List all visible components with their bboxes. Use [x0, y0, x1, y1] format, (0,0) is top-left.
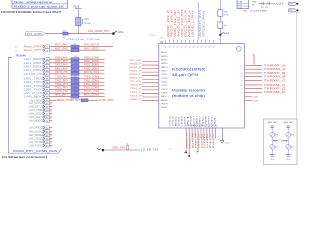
svg-text:TXD3_PHY: TXD3_PHY: [55, 88, 69, 90]
svg-text:RXD2_CONN: RXD2_CONN: [84, 65, 99, 67]
svg-text:Reset_PHY2: Reset_PHY2: [24, 49, 44, 52]
svg-text:RXD3_PHY: RXD3_PHY: [55, 68, 68, 70]
svg-text:2: 2: [16, 47, 18, 49]
svg-text:RXD0_P: RXD0_P: [130, 63, 143, 65]
svg-text:LAN_RXD3: LAN_RXD3: [24, 69, 44, 72]
svg-text:7: 7: [241, 89, 242, 91]
svg-text:LED2: LED2: [182, 114, 184, 126]
svg-text:VDD_1V2_PH: VDD_1V2_PH: [182, 9, 184, 37]
svg-text:2: 2: [241, 69, 242, 71]
svg-text:RXC: RXC: [161, 52, 168, 54]
svg-text:LAN_CLKSEL: LAN_CLKSEL: [29, 137, 44, 140]
svg-text:1 dB: 1 dB: [238, 2, 243, 4]
svg-text:LAN_CLK125: LAN_CLK125: [29, 102, 44, 105]
svg-text:33: 33: [74, 47, 76, 49]
LED mid label: [273, 140, 288, 142]
svg-text:GND: GND: [270, 159, 275, 161]
svg-text:LAN_RXD1: LAN_RXD1: [24, 62, 44, 65]
svg-text:4: 4: [241, 77, 242, 79]
wire FB1 to rail: [77, 26, 79, 34]
svg-text:22: 22: [212, 125, 214, 127]
svg-text:RGMII_PHY_CONN_BUS: RGMII_PHY_CONN_BUS: [13, 150, 57, 153]
wire 1V2 rail: [45, 33, 63, 35]
svg-text:46: 46: [201, 47, 203, 49]
svg-text:MDIO: MDIO: [161, 100, 168, 102]
svg-text:48: 48: [209, 47, 211, 49]
svg-text:RXD0_PHY: RXD0_PHY: [55, 57, 68, 59]
wire P1V2 down: [77, 9, 79, 17]
resistor R33: [126, 145, 129, 149]
svg-text:RXD3_P: RXD3_P: [130, 74, 143, 76]
svg-text:LAN_MODE2: LAN_MODE2: [29, 130, 44, 133]
svg-text:17: 17: [197, 125, 199, 127]
svg-text:RST_PHY: RST_PHY: [55, 45, 69, 47]
svg-text:TXRXM_A: TXRXM_A: [264, 67, 286, 71]
svg-text:RXD1_CONN: RXD1_CONN: [84, 61, 99, 63]
LED box outline: [264, 119, 298, 165]
svg-text:KSZ9031RNX: KSZ9031RNX: [172, 67, 206, 72]
svg-text:47: 47: [205, 47, 207, 49]
svg-text:(bottom of chip): (bottom of chip): [172, 94, 206, 98]
svg-text:LAN_MODE1: LAN_MODE1: [29, 127, 44, 130]
svg-text:5: 5: [241, 80, 242, 82]
resistor R14: [63, 32, 68, 35]
svg-text:C15: C15: [85, 19, 90, 21]
svg-text:TXEN: TXEN: [161, 92, 168, 94]
svg-text:LAN_RX_CTL: LAN_RX_CTL: [24, 73, 44, 76]
svg-text:TXD2_PHY: TXD2_PHY: [55, 84, 69, 86]
svg-text:TXD1_P: TXD1_P: [130, 88, 143, 90]
svg-text:TXD3_P: TXD3_P: [130, 95, 143, 97]
offpage port XI: [289, 9, 297, 12]
svg-text:LAN_MODE0: LAN_MODE0: [29, 120, 44, 123]
svg-text:TXD3_CONN: TXD3_CONN: [84, 88, 99, 90]
svg-text:33: 33: [74, 71, 76, 73]
svg-text:470: 470: [275, 135, 278, 137]
svg-text:CLK125: CLK125: [198, 132, 200, 148]
svg-text:20: 20: [206, 125, 208, 127]
junction dot J1: [112, 32, 115, 35]
svg-text:AVDDH: AVDDH: [253, 54, 256, 64]
svg-text:RXDV: RXDV: [161, 71, 168, 73]
svg-text:RXD1_P: RXD1_P: [130, 67, 143, 69]
svg-text:GND: GND: [286, 159, 291, 161]
U1 top pin stubs: [165, 40, 167, 44]
svg-text:19: 19: [203, 125, 205, 127]
svg-text:RXDV_P: RXDV_P: [130, 78, 143, 80]
svg-text:LAN_MODE3: LAN_MODE3: [29, 134, 44, 137]
svg-text:C14 0.1uF: C14 0.1uF: [67, 39, 85, 41]
wire chain low: [219, 28, 221, 43]
svg-text:33: 33: [74, 43, 76, 45]
svg-text:VSS: VSS: [254, 97, 259, 99]
svg-text:AVDDH_3V3: AVDDH_3V3: [199, 9, 202, 37]
svg-text:12.1K 1%: 12.1K 1%: [141, 149, 159, 151]
svg-text:AVDD_1V2_L: AVDD_1V2_L: [188, 9, 191, 37]
port 1V2_AVDD: [26, 32, 46, 36]
svg-text:RXCTL_PHY: RXCTL_PHY: [55, 72, 68, 74]
svg-text:33: 33: [74, 83, 76, 85]
wire chain mid: [219, 16, 221, 22]
ground arrow: [220, 141, 224, 144]
svg-text:LAN_TXD2: LAN_TXD2: [24, 85, 44, 88]
svg-text:TXEN_P: TXEN_P: [130, 99, 143, 101]
wire CLK to top: [197, 2, 199, 40]
svg-text:PME_N: PME_N: [195, 133, 197, 149]
svg-text:TXRXP_D: TXRXP_D: [264, 87, 286, 91]
svg-text:XO: XO: [290, 4, 293, 6]
svg-text:4.7: 4.7: [63, 38, 67, 40]
wire led low 1: [271, 149, 273, 155]
U1 right MDI pin wires: [245, 64, 263, 66]
svg-text:TXRXM_B: TXRXM_B: [264, 75, 286, 79]
svg-text:RXD0-3 pull-up/-down 1K: RXD0-3 pull-up/-down 1K: [14, 5, 65, 8]
svg-text:15: 15: [191, 125, 193, 127]
svg-text:TXRXP_C: TXRXP_C: [264, 78, 286, 82]
svg-text:LAN_LED2: LAN_LED2: [29, 116, 44, 119]
svg-text:TXRXM_C: TXRXM_C: [264, 83, 286, 87]
svg-text:RXD0_CONN: RXD0_CONN: [84, 57, 99, 59]
svg-text:33: 33: [74, 93, 76, 95]
svg-text:TXD0_P: TXD0_P: [130, 85, 143, 87]
U1 bottom pin stubs: [185, 128, 187, 153]
resistor R30: [218, 10, 223, 16]
wire rail to junction: [68, 33, 113, 35]
svg-text:1V2_AVDD: 1V2_AVDD: [27, 32, 43, 36]
svg-text:TXCTL_CON: TXCTL_CON: [84, 91, 99, 93]
svg-text:0.1uF: 0.1uF: [85, 23, 91, 25]
svg-text:VDD_1V2_AP: VDD_1V2_AP: [174, 9, 177, 37]
svg-text:33: 33: [74, 60, 76, 62]
svg-text:ISET_PHY: ISET_PHY: [113, 148, 127, 150]
svg-text:33: 33: [74, 86, 76, 88]
svg-text:A3V3: A3V3: [224, 32, 230, 35]
svg-text:33: 33: [74, 75, 76, 77]
svg-text:14: 14: [188, 125, 190, 127]
svg-text:MDC_PHY: MDC_PHY: [55, 95, 69, 97]
svg-text:grn: grn: [291, 147, 294, 149]
svg-text:LED2_N: LED2_N: [190, 133, 192, 149]
resistor R41: [270, 133, 275, 138]
svg-text:2: 2: [16, 50, 18, 52]
svg-text:X1_P: X1_P: [150, 35, 156, 37]
svg-text:VSS: VSS: [173, 114, 175, 126]
svg-text:GND: GND: [201, 132, 203, 148]
svg-text:XTAL: XTAL: [243, 9, 249, 12]
ground 2: [286, 154, 291, 156]
wire led mid 1: [271, 137, 273, 144]
svg-text:2.2K 5%: 2.2K 5%: [99, 100, 113, 102]
svg-text:LAN_MDC: LAN_MDC: [24, 96, 44, 99]
junction dots bottom: [188, 155, 190, 157]
svg-text:RXD3_CONN: RXD3_CONN: [84, 68, 99, 70]
svg-text:39: 39: [173, 47, 175, 49]
svg-text:GND: GND: [204, 132, 206, 148]
svg-text:GND: GND: [207, 132, 209, 148]
svg-text:PHY_RST_R: PHY_RST_R: [84, 45, 99, 47]
svg-text:LAN_RSVD: LAN_RSVD: [29, 144, 44, 147]
svg-text:49: 49: [213, 47, 215, 49]
resistor R42: [286, 133, 291, 138]
svg-text:LAN_INT_N: LAN_INT_N: [29, 105, 44, 108]
wire led low 2: [287, 149, 289, 155]
svg-text:LED1: LED1: [161, 107, 168, 109]
svg-text:33: 33: [74, 90, 76, 92]
svg-text:VSS: VSS: [254, 100, 259, 102]
svg-text:3: 3: [241, 73, 242, 75]
svg-text:33: 33: [74, 56, 76, 58]
thermal pad circle: [236, 46, 241, 51]
svg-text:33: 33: [74, 67, 76, 69]
svg-text:DVDD_L_PHY: DVDD_L_PHY: [192, 9, 194, 37]
svg-text:CL=18pF 25MHz: CL=18pF 25MHz: [250, 10, 267, 12]
ground 1: [270, 154, 275, 156]
power arrow 2: [287, 125, 290, 127]
svg-text:37: 37: [165, 47, 167, 49]
svg-text:U2: U2: [160, 40, 164, 44]
wire right edge down: [296, 11, 298, 119]
ground arrow 2: [97, 148, 101, 150]
svg-text:1K: 1K: [224, 25, 227, 27]
U1 right lower pins: [245, 96, 253, 98]
svg-text:RXD3: RXD3: [161, 67, 168, 69]
svg-text:LAN_TXD3: LAN_TXD3: [24, 88, 44, 91]
svg-text:VSS: VSS: [170, 114, 172, 126]
svg-text:1V2_AVDD_PHY: 1V2_AVDD_PHY: [88, 30, 110, 33]
svg-text:42: 42: [185, 47, 187, 49]
svg-text:AVDD_1V2_P: AVDD_1V2_P: [170, 9, 173, 37]
svg-text:2: 2: [217, 126, 219, 127]
svg-text:grn: grn: [275, 147, 278, 149]
svg-text:1: 1: [241, 65, 242, 67]
svg-text:TXD3: TXD3: [161, 89, 168, 91]
resistor R31: [218, 22, 223, 28]
svg-text:C11 22p: C11 22p: [261, 7, 268, 9]
svg-text:TXC: TXC: [161, 74, 168, 76]
note box N1: [12, 0, 68, 8]
svg-text:TXD2_CONN: TXD2_CONN: [84, 84, 99, 86]
svg-text:LAN_PME: LAN_PME: [29, 109, 44, 112]
svg-text:RGMII: RGMII: [16, 54, 26, 58]
wire chain top: [219, 0, 221, 10]
svg-text:Hz: Hz: [252, 5, 254, 7]
svg-text:45: 45: [197, 47, 199, 49]
svg-text:Note: strap options: Note: strap options: [14, 1, 53, 4]
svg-text:TXRXP_A: TXRXP_A: [264, 63, 286, 67]
svg-text:RXD2_PHY: RXD2_PHY: [55, 65, 68, 67]
svg-text:Reset_PHY1: Reset_PHY1: [24, 46, 44, 49]
svg-text:Paddle Ground: Paddle Ground: [172, 89, 205, 93]
svg-text:48-pin QFN: 48-pin QFN: [172, 72, 198, 77]
svg-text:VDDIO_PHY: VDDIO_PHY: [203, 9, 205, 37]
svg-text:18: 18: [200, 125, 202, 127]
svg-text:(to Ethernet connector): (to Ethernet connector): [2, 156, 47, 159]
svg-text:RXD0: RXD0: [161, 56, 168, 58]
svg-text:RST_PH2: RST_PH2: [55, 48, 69, 50]
svg-text:33: 33: [74, 79, 76, 81]
svg-text:MDC: MDC: [161, 96, 168, 98]
svg-text:NC: NC: [213, 131, 215, 148]
junction dot J3: [102, 149, 105, 152]
svg-text:DVDD_1V2_P: DVDD_1V2_P: [185, 9, 187, 37]
svg-text:TXD0_PHY: TXD0_PHY: [55, 77, 69, 79]
svg-text:P1V2: P1V2: [74, 7, 80, 9]
svg-text:LAN_RXD2: LAN_RXD2: [24, 66, 44, 69]
LED D1: [270, 145, 275, 150]
svg-text:LAN_RXD0: LAN_RXD0: [24, 58, 44, 61]
ferrite bead FB1: [76, 18, 81, 26]
svg-text:R30: R30: [224, 12, 229, 14]
junction dot J2: [219, 34, 221, 36]
svg-text:TXD0: TXD0: [161, 78, 168, 80]
power arrow 1: [271, 125, 274, 127]
svg-text:XO: XO: [160, 38, 163, 40]
svg-text:C16 1uF: C16 1uF: [87, 39, 101, 41]
svg-text:1%: 1%: [169, 149, 172, 151]
svg-text:LAN_TXD0: LAN_TXD0: [24, 78, 44, 81]
U1 left pin wires: [142, 61, 159, 63]
svg-text:RXD1_PHY: RXD1_PHY: [55, 61, 68, 63]
svg-text:TXCTL_PHY: TXCTL_PHY: [55, 91, 68, 93]
svg-text:RXCTL_CON: RXCTL_CON: [84, 72, 99, 74]
svg-text:TXD1: TXD1: [161, 81, 168, 83]
svg-text:RXD2_P: RXD2_P: [130, 70, 143, 72]
svg-text:A3V3_LED: A3V3_LED: [284, 121, 293, 124]
svg-text:A3V3_LED: A3V3_LED: [268, 121, 277, 124]
svg-text:TXRXM_D: TXRXM_D: [264, 90, 286, 94]
svg-text:23: 23: [215, 125, 217, 127]
svg-text:470: 470: [291, 135, 294, 137]
svg-text:13: 13: [185, 125, 187, 127]
svg-text:LED1_N: LED1_N: [187, 133, 189, 149]
svg-text:TXRXP_B: TXRXP_B: [264, 71, 286, 75]
wire ISET: [104, 149, 140, 151]
svg-text:1V2A: 1V2A: [118, 31, 124, 34]
IC U1 KSZ9031RNX body: [159, 44, 245, 129]
svg-text:INTN: INTN: [161, 103, 168, 105]
svg-text:AVDD_1V2_P: AVDD_1V2_P: [167, 9, 170, 37]
svg-text:TXD2: TXD2: [161, 85, 168, 87]
svg-text:AVDL: AVDL: [175, 114, 178, 126]
svg-text:MDC_CONN: MDC_CONN: [84, 95, 99, 97]
svg-text:33: 33: [74, 63, 76, 65]
svg-text:GND: GND: [225, 142, 230, 144]
svg-text:16: 16: [194, 125, 196, 127]
svg-text:INT_N: INT_N: [192, 132, 194, 148]
wire gnd stub: [221, 128, 223, 141]
svg-text:TXD1_PHY: TXD1_PHY: [55, 80, 69, 82]
svg-text:RXC_PHY: RXC_PHY: [130, 60, 143, 62]
svg-text:10/100/1000Mb Ethernet PHY: 10/100/1000Mb Ethernet PHY: [1, 10, 63, 14]
svg-text:43: 43: [189, 47, 191, 49]
bus bracket: [8, 57, 61, 153]
svg-text:41: 41: [181, 47, 183, 49]
svg-text:NC: NC: [210, 131, 212, 148]
LED D2: [286, 145, 291, 150]
svg-text:6: 6: [241, 85, 242, 87]
svg-text:VDDL: VDDL: [179, 114, 181, 126]
svg-text:LAN_TESTEN: LAN_TESTEN: [29, 141, 44, 144]
svg-text:LAN_LED1: LAN_LED1: [29, 113, 44, 116]
svg-text:TXD1_CONN: TXD1_CONN: [84, 80, 99, 82]
svg-text:X_CLK: X_CLK: [276, 4, 285, 6]
svg-text:40: 40: [177, 47, 179, 49]
svg-text:MDIO_CONN_3V3: MDIO_CONN_3V3: [57, 99, 81, 102]
svg-text:38: 38: [169, 47, 171, 49]
svg-text:TXC_PHY: TXC_PHY: [130, 81, 143, 83]
svg-text:TXD0_CONN: TXD0_CONN: [84, 77, 99, 79]
wire led mid 2: [287, 137, 289, 144]
svg-text:4.7K: 4.7K: [224, 14, 229, 16]
svg-text:RXD1: RXD1: [161, 60, 168, 62]
svg-text:AVDD_PLL_P: AVDD_PLL_P: [177, 9, 180, 37]
svg-text:44: 44: [193, 47, 195, 49]
svg-text:RXD2: RXD2: [161, 63, 168, 65]
offpage port XO: [289, 2, 297, 5]
svg-text:TXD2_P: TXD2_P: [130, 92, 143, 94]
svg-text:8: 8: [241, 92, 242, 94]
svg-text:PHY_RST2: PHY_RST2: [84, 48, 100, 50]
note box N2: [237, 0, 249, 9]
svg-text:21: 21: [209, 125, 211, 127]
svg-text:LAN_TXD1: LAN_TXD1: [24, 81, 44, 84]
svg-text:25M: 25M: [252, 2, 256, 4]
